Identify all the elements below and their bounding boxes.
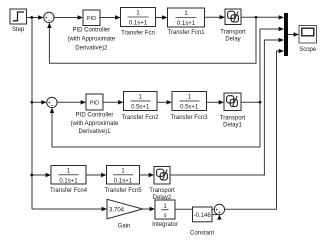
svg-text:0.1s+1: 0.1s+1	[114, 178, 133, 184]
integrator block Integrator 1/s	[152, 200, 178, 228]
node junction trunk row2	[31, 101, 34, 104]
svg-text:Step: Step	[12, 27, 25, 33]
sum block Sum1	[44, 12, 54, 24]
svg-text:0.1s+1: 0.1s+1	[129, 21, 148, 27]
wire Sum2 to PID Controller 1	[57, 100, 86, 104]
svg-text:Delay: Delay	[225, 36, 240, 42]
mux block Mux	[284, 13, 288, 56]
wire Step branch vertical trunk	[31, 18, 33, 210]
transfer function block Transfer Fcn2 1/(0.5s+1)	[121, 92, 159, 122]
svg-text:Transport: Transport	[220, 116, 246, 122]
svg-text:Gain: Gain	[118, 224, 131, 230]
wire Transfer Fcn2 to Transfer Fcn3	[157, 100, 172, 104]
svg-text:PID Controller: PID Controller	[72, 28, 110, 34]
wire Transfer Fcn5 to Transport Delay2	[140, 173, 155, 177]
svg-text:Transfer Fcn3: Transfer Fcn3	[170, 115, 208, 121]
svg-text:Transfer Fcn2: Transfer Fcn2	[121, 115, 159, 121]
svg-text:Transfer Fcn: Transfer Fcn	[121, 31, 155, 37]
svg-text:Transfer Fcn5: Transfer Fcn5	[104, 188, 142, 194]
transfer function block Transfer Fcn4 1/(0.1s+1)	[50, 166, 88, 194]
svg-text:-0.146: -0.146	[194, 213, 212, 219]
node branch junction after Step	[31, 16, 34, 19]
svg-text:0.5s+1: 0.5s+1	[131, 105, 150, 111]
wire Transport Delay1 to Mux input2	[241, 27, 284, 103]
transfer function block Transfer Fcn1 1/(0.1s+1)	[167, 8, 205, 36]
svg-text:PID: PID	[90, 101, 99, 107]
constant block Constant -0.146	[190, 207, 214, 237]
svg-text:Scope: Scope	[299, 47, 317, 53]
wire PID2 to Transfer Fcn	[100, 15, 121, 19]
wire feedback loop1 to Sum1 minus input	[47, 17, 256, 63]
wire Sum3 to Mux input4	[225, 49, 284, 210]
svg-text:0.1s+1: 0.1s+1	[177, 21, 196, 27]
svg-text:0.5s+1: 0.5s+1	[180, 105, 199, 111]
svg-text:Integrator: Integrator	[152, 222, 178, 228]
wire Transfer Fcn4 to Transfer Fcn5	[86, 173, 107, 177]
node junction after Transport Delay1	[259, 101, 262, 104]
PID controller block U-PID2	[67, 10, 115, 52]
PID controller block U-PID1	[71, 94, 119, 135]
wire Sum1 to PID Controller 2	[54, 15, 83, 19]
transport delay block Transport Delay	[220, 9, 246, 42]
sum block Sum3	[214, 204, 224, 216]
wire Transport Delay to Mux input1	[241, 15, 284, 19]
svg-text:Transport: Transport	[220, 29, 246, 35]
wire PID1 to Transfer Fcn2	[103, 100, 124, 104]
svg-text:PID Controller: PID Controller	[76, 112, 114, 118]
wire Transport Delay2 to Mux input3	[170, 38, 284, 175]
svg-text:Delay1: Delay1	[223, 123, 242, 129]
svg-text:s: s	[164, 213, 167, 219]
svg-text:Derivative)2: Derivative)2	[75, 46, 108, 52]
wire trunk to Sum2	[32, 100, 47, 104]
wire Gain to Integrator	[143, 207, 155, 211]
transfer function block Transfer Fcn 1/(0.1s+1)	[121, 8, 156, 37]
transport delay block Transport Delay1	[220, 93, 246, 129]
node junction trunk row3	[31, 174, 34, 177]
svg-text:0.1s+1: 0.1s+1	[59, 178, 78, 184]
wire Step to Sum1	[27, 15, 44, 19]
svg-text:Transport: Transport	[149, 188, 175, 194]
wire Mux to Scope	[288, 32, 299, 36]
wire Transfer Fcn1 to Transport Delay	[205, 15, 226, 19]
wire Transfer Fcn3 to Transport Delay1	[207, 100, 225, 104]
wire trunk to Gain	[32, 207, 107, 211]
scope block Scope	[299, 26, 317, 54]
transport delay block Transport Delay2	[149, 167, 175, 202]
sum block Sum2	[47, 97, 57, 109]
svg-text:(with Approximate: (with Approximate	[67, 37, 115, 43]
svg-text:+: +	[218, 211, 221, 217]
svg-text:PID: PID	[87, 16, 96, 22]
svg-text:3.704: 3.704	[109, 207, 125, 213]
svg-text:Constant: Constant	[190, 231, 214, 237]
wire Integrator to Sum3	[175, 207, 214, 211]
gain block Gain 3.704	[107, 199, 143, 229]
node junction after Transport Delay	[255, 16, 258, 19]
svg-text:Transfer Fcn1: Transfer Fcn1	[167, 30, 205, 36]
wire trunk to Transfer Fcn4	[32, 173, 51, 177]
svg-text:(with Approximate: (with Approximate	[71, 121, 119, 127]
svg-text:Transfer Fcn4: Transfer Fcn4	[50, 188, 88, 194]
wire Constant to Sum3 plus input	[212, 215, 222, 220]
step source block Step	[10, 9, 27, 33]
wire Transfer Fcn to Transfer Fcn1	[156, 15, 168, 19]
transfer function block Transfer Fcn3 1/(0.5s+1)	[170, 92, 208, 122]
svg-text:Derivative)1: Derivative)1	[78, 129, 111, 135]
transfer function block Transfer Fcn5 1/(0.1s+1)	[104, 166, 142, 195]
wire feedback loop2 to Sum2 minus input	[50, 102, 260, 147]
